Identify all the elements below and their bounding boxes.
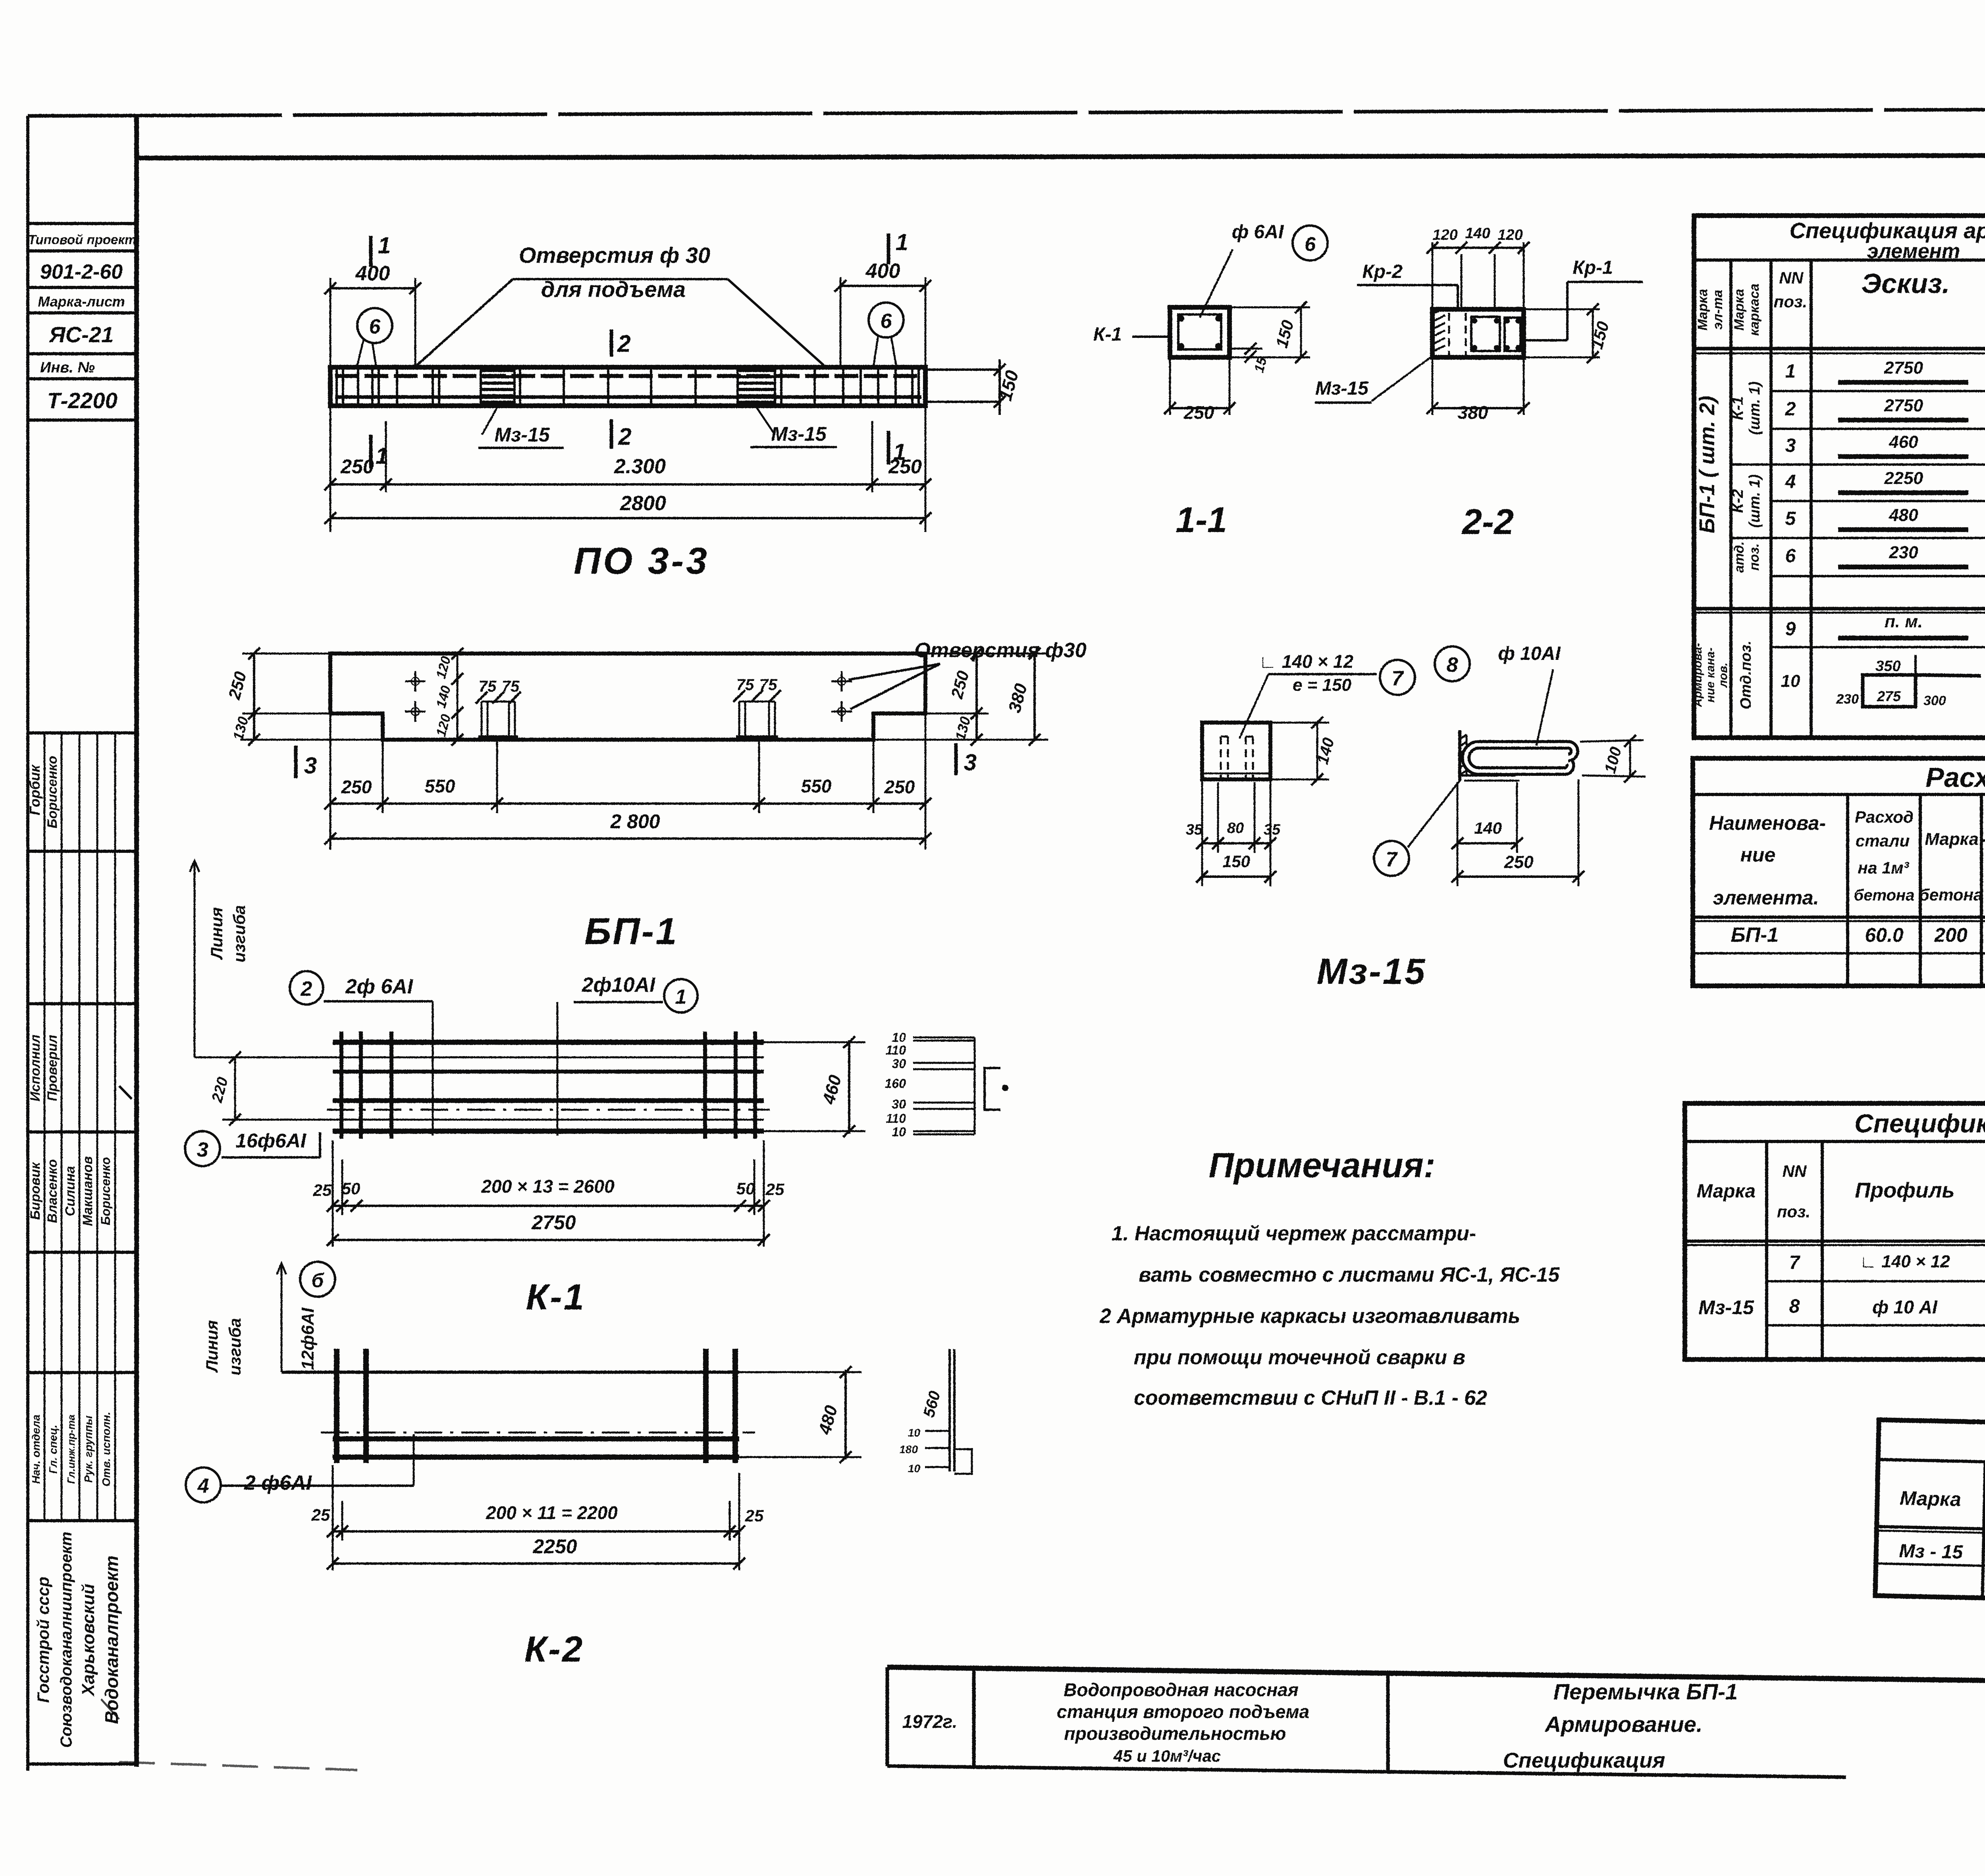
svg-text:4: 4 (1785, 471, 1796, 492)
svg-text:150: 150 (1222, 852, 1250, 871)
svg-text:п. м.: п. м. (1885, 612, 1923, 631)
svg-text:2750: 2750 (1884, 358, 1923, 378)
svg-text:1: 1 (1785, 361, 1796, 382)
svg-text:200 × 11 = 2200: 200 × 11 = 2200 (486, 1502, 618, 1523)
svg-text:2 800: 2 800 (610, 810, 660, 833)
svg-text:Гл.инж.пр-та: Гл.инж.пр-та (65, 1415, 77, 1484)
svg-text:10: 10 (892, 1125, 906, 1139)
svg-text:380: 380 (1458, 402, 1488, 423)
svg-text:1: 1 (378, 233, 391, 258)
svg-text:ф 10 АI: ф 10 АI (1872, 1297, 1938, 1317)
svg-text:10: 10 (908, 1427, 921, 1439)
svg-text:для подъема: для подъема (541, 277, 686, 302)
svg-text:станция второго подъема: станция второго подъема (1057, 1701, 1309, 1722)
svg-text:атд.: атд. (1732, 541, 1747, 573)
svg-text:бетона: бетона (1919, 885, 1983, 904)
svg-text:ЯС-21: ЯС-21 (48, 322, 114, 347)
svg-text:Мз-15: Мз-15 (494, 424, 550, 446)
svg-text:Мз-15: Мз-15 (771, 423, 827, 445)
svg-text:Отв. исполн.: Отв. исполн. (100, 1412, 112, 1487)
svg-text:поз.: поз. (1774, 292, 1807, 311)
svg-text:300: 300 (1923, 693, 1946, 708)
svg-text:Мз-15: Мз-15 (1315, 378, 1369, 399)
svg-text:3: 3 (964, 750, 977, 775)
svg-text:1: 1 (896, 229, 908, 255)
svg-text:производительностью: производительностью (1064, 1723, 1286, 1744)
svg-text:Рук. группы: Рук. группы (82, 1415, 94, 1483)
svg-text:Госстрой ссср: Госстрой ссср (34, 1577, 52, 1703)
svg-text:7: 7 (1392, 667, 1404, 690)
svg-text:Марка: Марка (1900, 1487, 1962, 1510)
svg-text:250: 250 (884, 777, 915, 797)
svg-text:на 1м³: на 1м³ (1858, 858, 1910, 877)
svg-text:2ф10АI: 2ф10АI (582, 974, 656, 997)
svg-text:(шт. 1): (шт. 1) (1746, 382, 1763, 435)
svg-text:2: 2 (301, 978, 312, 1001)
svg-text:110: 110 (886, 1111, 906, 1126)
svg-text:1-1: 1-1 (1176, 500, 1227, 540)
svg-text:400: 400 (865, 260, 900, 283)
svg-text:10: 10 (892, 1030, 906, 1045)
svg-text:Водопроводная насосная: Водопроводная насосная (1064, 1679, 1299, 1700)
svg-text:Отверстия ф30: Отверстия ф30 (914, 639, 1086, 662)
svg-text:4: 4 (197, 1475, 209, 1498)
svg-text:лов.: лов. (1717, 662, 1730, 688)
svg-text:250: 250 (341, 777, 372, 797)
svg-text:35: 35 (1186, 821, 1203, 838)
svg-text:25: 25 (765, 1180, 784, 1199)
svg-text:30: 30 (892, 1097, 906, 1111)
svg-text:вать совместно с листами ЯС: вать совместно с листами ЯС-1, ЯС-15 (1139, 1263, 1560, 1286)
svg-text:(шт. 1): (шт. 1) (1746, 474, 1763, 528)
svg-text:6: 6 (369, 315, 381, 338)
svg-text:140: 140 (1465, 225, 1490, 242)
svg-text:10: 10 (908, 1462, 921, 1475)
svg-text:Кр-2: Кр-2 (1362, 261, 1403, 282)
svg-text:Расход: Расход (1855, 808, 1914, 826)
svg-text:при помощи точечной свар: при помощи точечной сварки в (1134, 1346, 1465, 1369)
svg-text:250: 250 (1183, 402, 1214, 423)
svg-text:2.300: 2.300 (614, 455, 666, 478)
svg-text:ние: ние (1740, 844, 1776, 866)
svg-text:ф 6АI: ф 6АI (1232, 222, 1284, 243)
svg-text:250: 250 (340, 455, 374, 478)
svg-text:2750: 2750 (1884, 396, 1923, 415)
svg-text:Спецификация арматуры на: Спецификация арматуры на 1 (1789, 218, 1985, 243)
svg-text:25: 25 (311, 1506, 330, 1524)
svg-text:2: 2 (617, 330, 630, 357)
svg-text:Примечания:: Примечания: (1209, 1145, 1436, 1185)
svg-text:Армирова-: Армирова- (1691, 643, 1704, 707)
svg-text:К-1: К-1 (1729, 396, 1746, 420)
svg-text:400: 400 (355, 262, 390, 285)
svg-text:460: 460 (1889, 432, 1918, 452)
svg-text:изгиба: изгиба (225, 1318, 244, 1376)
svg-text:Эскиз.: Эскиз. (1862, 268, 1950, 299)
svg-text:Макшанов: Макшанов (80, 1156, 95, 1226)
svg-text:25: 25 (745, 1506, 764, 1525)
svg-text:Союзводоканалниипроект: Союзводоканалниипроект (58, 1532, 75, 1748)
svg-text:Т-2200: Т-2200 (47, 388, 117, 413)
svg-text:Профиль: Профиль (1855, 1178, 1954, 1202)
svg-text:Марка-лист: Марка-лист (38, 293, 125, 310)
svg-text:230: 230 (1836, 692, 1859, 707)
svg-text:Мз-15: Мз-15 (1698, 1296, 1754, 1319)
svg-text:3: 3 (304, 753, 317, 779)
svg-text:120: 120 (1497, 227, 1522, 243)
svg-text:25: 25 (313, 1181, 332, 1199)
svg-text:БП-1 ( шт. 2): БП-1 ( шт. 2) (1695, 396, 1719, 533)
svg-text:изгиба: изгиба (230, 905, 249, 963)
svg-text:140: 140 (1474, 819, 1502, 837)
svg-text:эл-та: эл-та (1710, 290, 1725, 330)
svg-text:Линия: Линия (207, 907, 226, 960)
svg-text:12ф6АI: 12ф6АI (298, 1307, 318, 1370)
svg-text:6: 6 (881, 310, 892, 333)
svg-text:550: 550 (425, 776, 455, 796)
svg-text:ние кана-: ние кана- (1704, 648, 1717, 703)
svg-text:Власенко: Власенко (45, 1159, 60, 1223)
svg-text:5: 5 (1785, 508, 1796, 529)
svg-text:поз.: поз. (1747, 544, 1762, 571)
svg-text:Марка: Марка (1695, 289, 1710, 331)
svg-text:160: 160 (885, 1076, 906, 1091)
svg-text:2250: 2250 (1884, 469, 1923, 488)
svg-text:Расход материалов.: Расход материалов. (1925, 762, 1985, 793)
svg-text:Мз - 15: Мз - 15 (1899, 1541, 1964, 1563)
svg-text:Бировик: Бировик (28, 1162, 43, 1220)
svg-text:50: 50 (736, 1179, 755, 1198)
svg-text:120: 120 (1432, 227, 1457, 243)
svg-text:элемент: элемент (1867, 240, 1960, 263)
svg-text:275: 275 (1877, 688, 1901, 704)
svg-text:элемента.: элемента. (1713, 887, 1819, 909)
svg-text:ф 10АI: ф 10АI (1498, 643, 1561, 664)
svg-text:Наименова-: Наименова- (1709, 812, 1826, 834)
svg-text:7: 7 (1386, 848, 1398, 871)
svg-text:7: 7 (1789, 1252, 1801, 1273)
svg-text:9: 9 (1785, 619, 1796, 640)
svg-text:стали: стали (1856, 831, 1910, 850)
svg-text:45 и 10м³/час: 45 и 10м³/час (1113, 1747, 1221, 1765)
svg-text:35: 35 (1264, 821, 1281, 838)
svg-text:550: 550 (801, 776, 832, 796)
svg-text:6: 6 (1305, 233, 1316, 255)
svg-text:К-1: К-1 (526, 1277, 586, 1317)
svg-text:Нач. отдела: Нач. отдела (30, 1415, 42, 1484)
svg-text:Спецификация: Спецификация (1503, 1749, 1665, 1772)
svg-text:180: 180 (899, 1443, 918, 1456)
svg-text:901-2-60: 901-2-60 (40, 260, 123, 283)
svg-text:2: 2 (1785, 399, 1796, 420)
svg-text:Мз-15: Мз-15 (1317, 951, 1427, 992)
svg-text:Перемычка БП-1: Перемычка БП-1 (1553, 1679, 1738, 1704)
svg-text:30: 30 (892, 1057, 906, 1071)
svg-text:2-2: 2-2 (1461, 502, 1514, 542)
svg-text:2 ф6АI: 2 ф6АI (244, 1471, 312, 1494)
svg-text:Водоканалпроект: Водоканалпроект (101, 1556, 122, 1724)
svg-text:Марка: Марка (1697, 1181, 1756, 1202)
svg-text:2: 2 (618, 423, 631, 450)
svg-text:каркаса: каркаса (1747, 283, 1762, 336)
svg-text:110: 110 (886, 1043, 906, 1057)
svg-text:К-1: К-1 (1093, 324, 1122, 345)
svg-text:16ф6АI: 16ф6АI (235, 1130, 306, 1152)
svg-text:10: 10 (1781, 671, 1800, 691)
svg-text:NN: NN (1783, 1162, 1807, 1180)
svg-text:Линия: Линия (202, 1320, 221, 1373)
svg-text:К-2: К-2 (1729, 489, 1746, 513)
svg-text:Марка: Марка (1925, 829, 1979, 849)
svg-text:Силина: Силина (63, 1166, 78, 1217)
svg-text:б: б (312, 1269, 325, 1292)
svg-text:поз.: поз. (1777, 1202, 1810, 1221)
svg-text:∟ 140 × 12: ∟ 140 × 12 (1259, 651, 1354, 672)
svg-text:Отверстия ф 30: Отверстия ф 30 (519, 243, 710, 268)
svg-text:e = 150: e = 150 (1293, 675, 1352, 695)
svg-text:2ф 6АI: 2ф 6АI (345, 975, 414, 998)
svg-text:БП-1: БП-1 (1731, 924, 1779, 947)
svg-text:8: 8 (1789, 1296, 1800, 1317)
svg-text:ПО 3-3: ПО 3-3 (574, 540, 709, 582)
svg-text:200 × 13 = 2600: 200 × 13 = 2600 (481, 1176, 615, 1197)
svg-text:Кр-1: Кр-1 (1573, 257, 1613, 278)
svg-text:∟ 140 × 12: ∟ 140 × 12 (1860, 1252, 1950, 1271)
svg-text:1. Настоящий чертеж рас: 1. Настоящий чертеж рассматри- (1112, 1222, 1476, 1245)
svg-text:80: 80 (1227, 820, 1244, 837)
svg-text:2800: 2800 (620, 492, 666, 515)
svg-text:Исполнил: Исполнил (28, 1035, 43, 1102)
svg-text:2250: 2250 (532, 1535, 577, 1558)
svg-text:350: 350 (1875, 658, 1900, 675)
svg-text:250: 250 (1504, 852, 1534, 872)
svg-text:8: 8 (1447, 654, 1458, 677)
svg-text:3: 3 (197, 1138, 208, 1161)
svg-text:200: 200 (1934, 924, 1968, 946)
svg-text:Горбик: Горбик (27, 764, 43, 816)
svg-text:6: 6 (1785, 546, 1796, 567)
svg-text:Марка: Марка (1732, 289, 1747, 331)
svg-text:Гл. спец.: Гл. спец. (47, 1425, 59, 1473)
svg-text:Армирование.: Армирование. (1544, 1712, 1703, 1737)
svg-text:250: 250 (888, 455, 922, 478)
svg-text:50: 50 (342, 1179, 360, 1198)
svg-text:Проверил: Проверил (45, 1035, 60, 1101)
svg-text:1: 1 (675, 985, 687, 1008)
svg-text:соответствии с СНиП II - В.: соответствии с СНиП II - В.1 - 62 (1134, 1386, 1487, 1409)
svg-text:2750: 2750 (531, 1211, 576, 1234)
svg-text:1972г.: 1972г. (902, 1711, 957, 1732)
svg-text:Борисенко: Борисенко (98, 1157, 113, 1225)
svg-text:Инв. №: Инв. № (40, 359, 95, 376)
svg-text:Борисенко: Борисенко (45, 756, 60, 829)
svg-text:Харьковский: Харьковский (79, 1584, 98, 1697)
svg-text:БП-1: БП-1 (584, 910, 678, 952)
svg-text:К-2: К-2 (524, 1629, 584, 1670)
svg-text:бетона: бетона (1854, 887, 1915, 904)
svg-text:3: 3 (1785, 435, 1796, 456)
svg-text:230: 230 (1889, 543, 1918, 562)
svg-text:Типовой проект: Типовой проект (28, 232, 137, 247)
svg-text:Отд.поз.: Отд.поз. (1738, 640, 1754, 709)
svg-text:480: 480 (1889, 505, 1918, 525)
svg-text:60.0: 60.0 (1865, 924, 1904, 946)
svg-text:NN: NN (1779, 268, 1804, 287)
svg-text:Спецификация металла: Спецификация металла (1854, 1109, 1985, 1138)
svg-text:2 Арматурные каркасы изгота: 2 Арматурные каркасы изготавливать (1099, 1305, 1521, 1328)
